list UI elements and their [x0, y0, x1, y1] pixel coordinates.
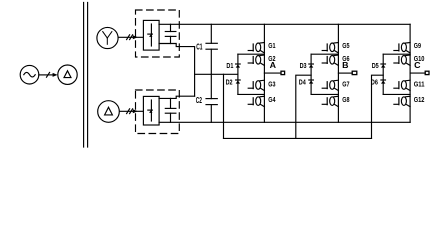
capacitor C2 [206, 74, 217, 122]
transistor G2 [248, 55, 264, 65]
svg-text:G8: G8 [342, 95, 349, 104]
wire junction upper C [383, 53, 410, 55]
terminal B [352, 71, 357, 74]
wire junction lower B [311, 93, 338, 95]
thyristor inside U2 [148, 100, 153, 121]
transistor G12 [394, 96, 410, 106]
transistor G11 [394, 80, 410, 90]
terminal C [425, 71, 429, 74]
wire clamp branch of leg B [310, 54, 312, 94]
wire clamp branch of leg C [382, 54, 384, 94]
wire junction lower C [383, 93, 410, 95]
svg-text:D1: D1 [226, 61, 234, 70]
svg-text:G9: G9 [414, 41, 421, 50]
svg-text:G11: G11 [414, 80, 425, 89]
svg-text:D3: D3 [300, 61, 307, 70]
wire junction lower A [238, 93, 265, 95]
wire neutral riser 2 [296, 75, 311, 138]
wire Y to rectifier (hatched arrow) [119, 35, 143, 40]
transistor G6 [322, 55, 338, 65]
AC source V1 [20, 65, 39, 84]
transistor G8 [322, 96, 338, 106]
wire junction upper B [311, 53, 338, 55]
svg-text:G5: G5 [342, 41, 350, 50]
transistor G7 [322, 80, 338, 90]
wire clamp branch of leg A [237, 54, 239, 94]
svg-text:G3: G3 [268, 80, 275, 89]
svg-text:B: B [342, 60, 348, 70]
inverter leg A: vertical [263, 24, 265, 122]
rectifier U2 (box) [143, 96, 159, 125]
wire midpoint bus [195, 73, 238, 75]
wire DC plus rail [159, 23, 410, 25]
svg-text:G1: G1 [268, 41, 276, 50]
svg-text:D5: D5 [372, 61, 380, 70]
clamp diode D3 [309, 64, 314, 68]
clamp diode D1 [236, 64, 241, 68]
svg-text:G12: G12 [414, 95, 425, 104]
rectifier U1 (box) [143, 20, 159, 50]
svg-text:D2: D2 [226, 78, 233, 87]
svg-text:C2: C2 [196, 96, 203, 105]
wire output A [264, 72, 281, 74]
rectifier module 1 (dashed box) [136, 10, 180, 57]
transformer core bars [84, 3, 88, 148]
wire module1 minus output to midpoint [159, 44, 195, 97]
capacitor inside module 1 [165, 24, 176, 43]
terminal A [281, 71, 285, 74]
transistor G1 [248, 43, 264, 53]
svg-text:A: A [270, 60, 276, 70]
wire output B [338, 72, 352, 74]
thyristor inside U1 [148, 24, 153, 46]
transistor G5 [322, 43, 338, 53]
capacitor inside module 2 [165, 98, 176, 122]
transistor G4 [248, 96, 264, 106]
label Y [103, 32, 112, 45]
inverter leg C: vertical [409, 24, 411, 122]
svg-text:C1: C1 [196, 42, 203, 51]
delta winding circle [98, 101, 120, 123]
svg-text:C: C [414, 60, 420, 70]
wire delta to rectifier (hatched arrow) [120, 109, 143, 114]
clamp diode D2 [236, 80, 241, 84]
svg-text:D6: D6 [371, 78, 378, 87]
wire junction upper A [238, 53, 265, 55]
delta converter circle [58, 65, 77, 84]
transistor G10 [394, 55, 410, 65]
wire neutral riser 1 [223, 74, 225, 138]
wire neutral sub-bus [224, 137, 372, 139]
capacitor C1 [206, 24, 217, 74]
wire DC minus rail [159, 121, 410, 123]
clamp diode D5 [381, 64, 386, 68]
clamp diode D4 [309, 80, 314, 84]
clamp diode D6 [381, 80, 386, 84]
wire output C [410, 72, 425, 74]
transistor G9 [394, 43, 410, 53]
wire neutral riser 3 [372, 75, 384, 138]
svg-text:D4: D4 [299, 78, 307, 87]
wire module2 plus output to midpoint riser [159, 96, 195, 98]
svg-text:G7: G7 [342, 80, 349, 89]
rectifier module 2 (dashed box) [136, 90, 180, 134]
Y winding circle [97, 27, 118, 48]
inverter leg B: vertical [337, 24, 339, 122]
svg-text:G4: G4 [268, 95, 276, 104]
transistor G3 [248, 80, 264, 90]
wire source arrow [39, 72, 58, 77]
